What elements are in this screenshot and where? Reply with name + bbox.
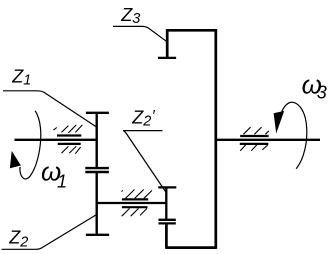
intermediate shaft 2 xyxy=(97,202,167,204)
bearing on shaft 3 xyxy=(240,136,269,144)
input shaft 1 xyxy=(15,139,98,141)
label Z1 xyxy=(3,66,97,127)
ring gear Z3 outline xyxy=(158,29,217,249)
output shaft 3 xyxy=(216,139,320,141)
bearing on shaft 1 xyxy=(57,136,81,144)
label Z2' xyxy=(123,108,166,192)
bearing 3 hatching xyxy=(240,127,269,151)
label Z2 xyxy=(2,215,97,251)
gear Z2 xyxy=(85,172,109,235)
rotation arrow omega1 xyxy=(10,111,41,179)
bearing 1 hatching xyxy=(53,125,82,154)
bearing on shaft 2 xyxy=(122,199,148,207)
rotation arrow omega3 xyxy=(274,102,307,168)
label Z3 xyxy=(113,5,167,42)
bearing 2 hatching xyxy=(122,190,152,217)
gear Z2' xyxy=(158,187,176,219)
gear Z1 xyxy=(85,113,109,168)
